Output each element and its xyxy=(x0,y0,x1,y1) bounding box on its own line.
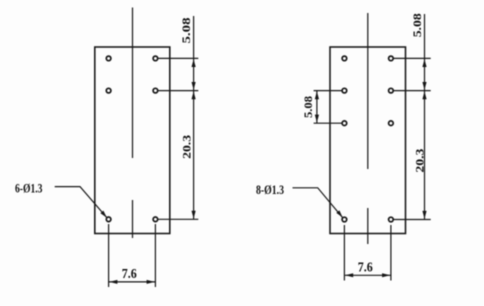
right leader line for 8-O1.3 xyxy=(293,188,343,218)
right arrow up at row2 (below) xyxy=(422,91,426,99)
right extension line row2 (left side) xyxy=(314,90,342,92)
svg-text:7.6: 7.6 xyxy=(358,260,373,275)
hole A1 (left drawing row1 left) xyxy=(106,56,111,61)
left extension line bottom row xyxy=(158,218,198,220)
right leader arrowhead xyxy=(336,210,342,217)
right arrow down at bottom row xyxy=(422,211,426,219)
right arrow up at row1 xyxy=(422,59,426,67)
left footprint outline xyxy=(95,47,170,234)
left bottom extension line (left hole) xyxy=(108,224,110,287)
right-left arrow up at row2 xyxy=(315,91,319,99)
right 7.6 arrow right xyxy=(382,273,390,277)
right 7.6 arrow left xyxy=(345,273,353,277)
left 7.6 arrow right xyxy=(147,280,155,284)
hole B4 (right drawing row2 right) xyxy=(389,88,394,93)
hole A4 (left drawing row2 right) xyxy=(153,88,158,93)
svg-text:20.3: 20.3 xyxy=(179,135,193,159)
right extension line row2 (right side) xyxy=(394,90,431,92)
hole B1 (right drawing row1 left) xyxy=(342,56,347,61)
hole A6 (left drawing bottom right) xyxy=(153,217,158,222)
left arrow up at row2 (below) xyxy=(192,91,196,99)
svg-text:5.08: 5.08 xyxy=(301,96,315,118)
left vertical dimension line xyxy=(193,16,195,219)
left leader arrowhead xyxy=(100,211,106,218)
hole A2 (left drawing row1 right) xyxy=(153,56,158,61)
hole A3 (left drawing row2 left) xyxy=(106,88,111,93)
right center line upper segment xyxy=(367,13,369,169)
hole B3 (right drawing row2 left) xyxy=(342,88,347,93)
right footprint outline xyxy=(330,47,406,234)
svg-text:6-Ø1.3: 6-Ø1.3 xyxy=(15,181,43,196)
svg-text:20.3: 20.3 xyxy=(413,149,427,173)
left arrow down at bottom row xyxy=(192,211,196,219)
hole B2 (right drawing row1 right) xyxy=(389,56,394,61)
hole B8 (right drawing bottom right) xyxy=(389,217,394,222)
svg-text:5.08: 5.08 xyxy=(410,13,424,37)
left horizontal dimension line 7.6 xyxy=(109,281,156,283)
right vertical dimension line (left side) xyxy=(316,91,318,124)
left leader line for 6-O1.3 xyxy=(55,187,107,218)
right horizontal dimension line 7.6 xyxy=(344,274,391,276)
left extension line row2 xyxy=(158,90,198,92)
right bottom extension line (right hole) xyxy=(390,225,392,281)
left arrow up at row1 xyxy=(192,59,196,67)
left center line lower segment xyxy=(132,200,134,238)
right bottom extension line (left hole) xyxy=(343,225,345,281)
svg-text:8-Ø1.3: 8-Ø1.3 xyxy=(256,182,284,197)
right-left arrow down at row3 xyxy=(315,115,319,123)
right extension line bottom row (right side) xyxy=(394,219,431,221)
right arrow down at row2 (above) xyxy=(422,82,426,90)
svg-text:5.08: 5.08 xyxy=(179,18,193,44)
hole B6 (right drawing row3 right) xyxy=(389,121,394,126)
right vertical dimension line (right side) xyxy=(424,14,426,220)
hole B7 (right drawing bottom left) xyxy=(342,217,347,222)
left extension line row1 xyxy=(158,57,198,59)
right center line lower segment xyxy=(367,208,369,244)
svg-text:7.6: 7.6 xyxy=(122,267,137,282)
right extension line row3 (left side) xyxy=(314,122,342,124)
left bottom extension line (right hole) xyxy=(154,224,156,287)
left center line upper segment xyxy=(132,8,134,159)
left 7.6 arrow left xyxy=(109,280,117,284)
left arrow down at row2 (above) xyxy=(192,82,196,90)
right extension line row1 (right side) xyxy=(394,57,431,59)
hole B5 (right drawing row3 left) xyxy=(342,121,347,126)
hole A5 (left drawing bottom left) xyxy=(106,217,111,222)
